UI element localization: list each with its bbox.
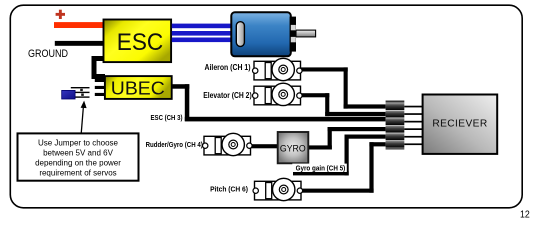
wire rudder servo to gyro <box>250 144 279 148</box>
svg-text:ESC: ESC <box>117 29 164 56</box>
wire ESC to UBEC (L-shape) <box>92 56 106 79</box>
wire gyro to receiver CH4 <box>308 127 385 150</box>
wire aileron servo to receiver <box>301 67 386 108</box>
ESC box <box>104 20 172 63</box>
wire gyro gain to receiver CH5 <box>293 135 386 176</box>
svg-text:RECIEVER: RECIEVER <box>432 119 487 130</box>
callout arrow to jumper <box>81 101 87 133</box>
servo aileron CH1 <box>253 58 303 80</box>
voltage jumper (blue) <box>62 90 75 99</box>
svg-text:Use Jumper to choose: Use Jumper to choose <box>38 139 119 148</box>
motor M1 <box>231 12 315 56</box>
svg-text:Pitch (CH 6): Pitch (CH 6) <box>210 185 248 194</box>
svg-text:between 5V and 6V: between 5V and 6V <box>43 149 113 158</box>
UBEC left pins <box>95 79 105 96</box>
svg-text:12: 12 <box>520 210 530 221</box>
svg-text:ESC (CH 3): ESC (CH 3) <box>151 113 183 122</box>
gyro G1 <box>278 132 309 163</box>
battery plus symbol <box>56 10 65 19</box>
label Gyro gain (CH 5) <box>292 164 347 173</box>
callout note box <box>18 133 139 180</box>
battery positive wire (red) <box>54 22 104 28</box>
receiver connector stack <box>386 101 405 150</box>
receiver RX <box>423 95 498 154</box>
svg-text:Elevator (CH 2): Elevator (CH 2) <box>203 91 252 100</box>
jumper header pins (thin lines) <box>71 87 90 98</box>
svg-text:Gyro gain (CH 5): Gyro gain (CH 5) <box>296 164 346 173</box>
svg-text:UBEC: UBEC <box>111 78 165 98</box>
connector stack to receiver wires <box>404 106 422 145</box>
motor wires (3 blue) <box>172 24 232 42</box>
svg-text:GROUND: GROUND <box>28 48 68 60</box>
svg-text:GYRO: GYRO <box>280 142 306 153</box>
wire pitch servo to receiver CH6 <box>303 142 386 193</box>
UBEC box <box>105 76 172 99</box>
servo rudder CH4 <box>203 133 253 155</box>
svg-text:Rudder/Gyro (CH 4): Rudder/Gyro (CH 4) <box>146 140 204 149</box>
wire elevator servo to receiver <box>301 93 386 116</box>
servo pitch CH6 <box>253 178 303 200</box>
svg-text:Aileron (CH 1): Aileron (CH 1) <box>205 63 251 72</box>
servo elevator CH2 <box>253 83 303 105</box>
ground wire (black) <box>55 41 105 46</box>
wire UBEC to receiver CH3 <box>173 84 386 121</box>
svg-text:depending on the power: depending on the power <box>35 159 121 168</box>
svg-text:requirement of servos: requirement of servos <box>39 168 116 177</box>
